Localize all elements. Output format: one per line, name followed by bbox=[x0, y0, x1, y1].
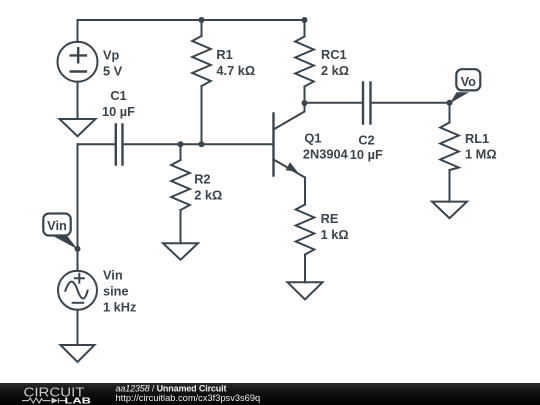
label RL1 value bbox=[465, 131, 497, 162]
ground (below Vin source) bbox=[61, 345, 95, 362]
capacitor C2 bbox=[363, 83, 371, 124]
svg-text:sine: sine bbox=[103, 283, 129, 298]
wire top rail bbox=[78, 19, 305, 21]
label flag Vin bbox=[43, 214, 77, 250]
svg-text:RC1: RC1 bbox=[321, 47, 347, 62]
ground (below RE) bbox=[288, 282, 323, 299]
svg-text:http://circuitlab.com/cx3f3psv: http://circuitlab.com/cx3f3psv3s69q bbox=[116, 393, 261, 403]
wire C2 to output node bbox=[372, 102, 450, 104]
label RE value bbox=[321, 211, 349, 242]
svg-text:4.7 kΩ: 4.7 kΩ bbox=[216, 63, 255, 78]
svg-text:Q1: Q1 bbox=[304, 131, 321, 146]
label C2 value bbox=[350, 133, 383, 162]
resistor R2 bbox=[171, 144, 190, 243]
svg-text:Vo: Vo bbox=[461, 74, 477, 89]
svg-text:aa12358 / Unnamed Circuit: aa12358 / Unnamed Circuit bbox=[116, 383, 227, 393]
svg-text:R1: R1 bbox=[216, 47, 232, 62]
label R1 value bbox=[216, 47, 255, 78]
svg-text:2 kΩ: 2 kΩ bbox=[194, 187, 222, 202]
capacitor C1 bbox=[78, 125, 274, 165]
svg-text:C2: C2 bbox=[358, 133, 374, 148]
svg-text:RE: RE bbox=[321, 211, 339, 226]
label RC1 value bbox=[321, 47, 349, 78]
svg-text:1 kHz: 1 kHz bbox=[103, 299, 136, 314]
node dot Vin probe bbox=[75, 246, 81, 252]
resistor RC1 bbox=[295, 20, 314, 103]
label Vin source value bbox=[103, 267, 136, 314]
voltage source Vin sine bbox=[58, 271, 97, 345]
resistor RE bbox=[296, 178, 315, 283]
ground (below RL1) bbox=[432, 202, 467, 219]
CircuitLab logo bbox=[22, 384, 92, 405]
resistor RL1 bbox=[440, 103, 459, 202]
resistor R1 bbox=[192, 20, 211, 144]
svg-text:C1: C1 bbox=[110, 88, 126, 103]
label Q1 value bbox=[303, 131, 349, 162]
label C1 value bbox=[102, 88, 135, 119]
svg-text:10 µF: 10 µF bbox=[350, 147, 383, 162]
node dot R2 top bbox=[178, 141, 184, 147]
wire left column down to Vin source bbox=[77, 144, 79, 270]
voltage source Vp bbox=[58, 20, 98, 119]
node dot R1 bottom bbox=[199, 141, 205, 147]
svg-text:1 MΩ: 1 MΩ bbox=[465, 147, 497, 162]
node dot top rail R1 bbox=[199, 17, 205, 23]
svg-text:2N3904: 2N3904 bbox=[303, 147, 349, 162]
svg-text:Vp: Vp bbox=[103, 47, 120, 62]
svg-text:2 kΩ: 2 kΩ bbox=[321, 63, 349, 78]
transistor Q1 emitter arrow bbox=[286, 162, 298, 172]
node dot collector bbox=[302, 100, 308, 106]
ground (below R2) bbox=[163, 243, 198, 260]
svg-text:LAB: LAB bbox=[65, 396, 92, 405]
node dot output bbox=[447, 100, 453, 106]
svg-text:RL1: RL1 bbox=[465, 131, 489, 146]
node dot top rail RC1 bbox=[302, 17, 308, 23]
label R2 value bbox=[194, 171, 222, 202]
label Vp value bbox=[103, 47, 123, 78]
wire collector to C2 bbox=[305, 102, 362, 104]
svg-text:5 V: 5 V bbox=[103, 63, 123, 78]
svg-text:10 µF: 10 µF bbox=[102, 104, 135, 119]
transistor Q1 bbox=[274, 103, 306, 178]
label flag Vo bbox=[450, 69, 480, 103]
ground (below Vp) bbox=[60, 119, 96, 136]
svg-text:Vin: Vin bbox=[47, 218, 67, 233]
svg-text:Vin: Vin bbox=[103, 267, 123, 282]
svg-text:1 kΩ: 1 kΩ bbox=[321, 227, 349, 242]
svg-text:R2: R2 bbox=[194, 171, 210, 186]
footer credit text bbox=[116, 383, 261, 403]
